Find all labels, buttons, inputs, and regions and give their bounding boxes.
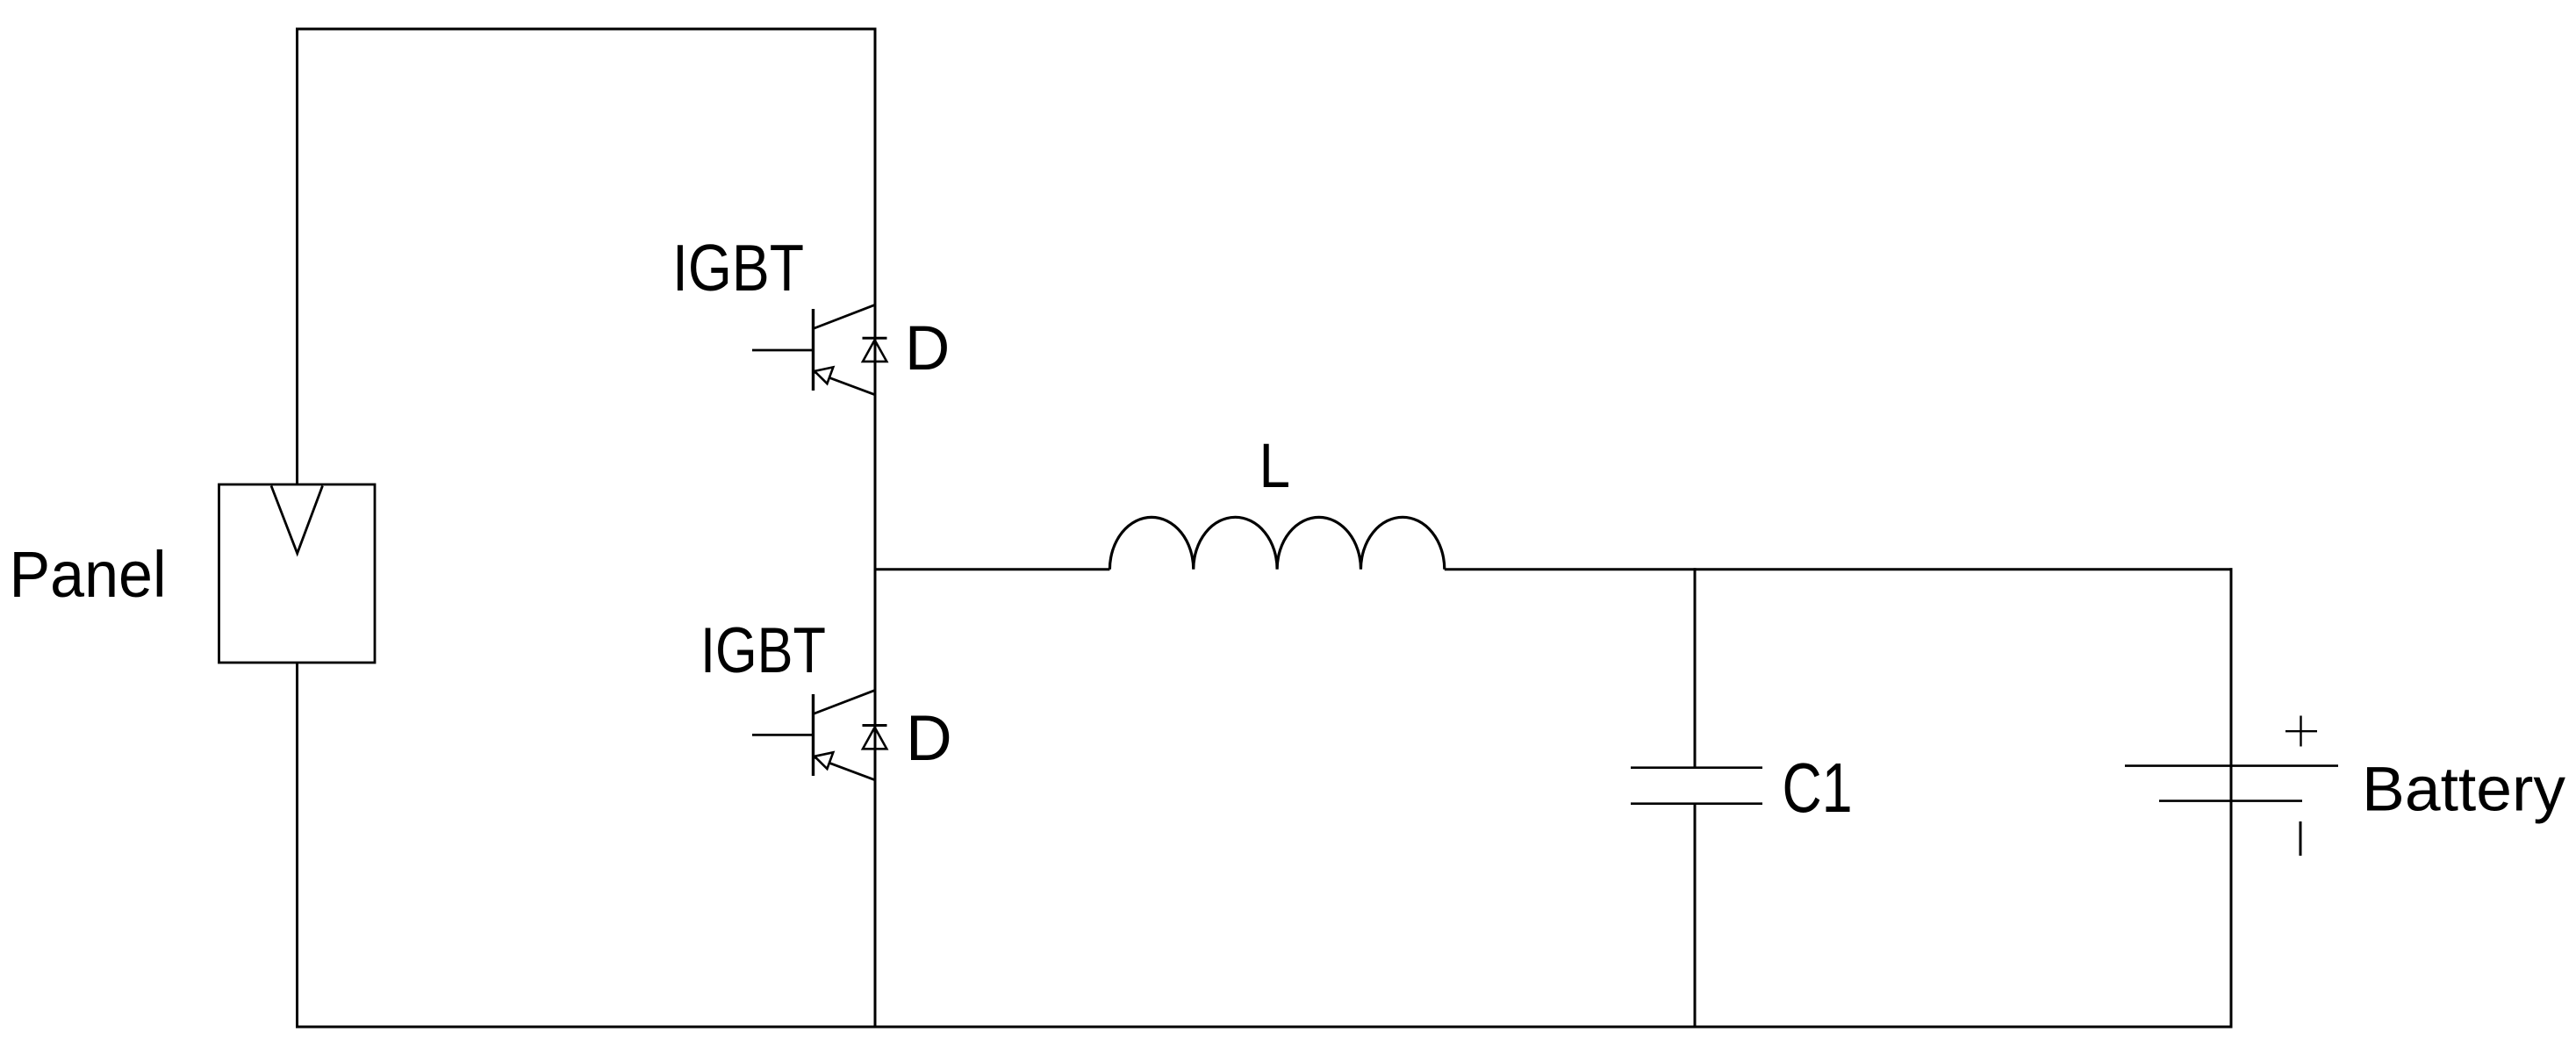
diode D lower: triangle <box>863 728 886 749</box>
transistor IGBT upper: emitter arrowhead (open) <box>814 367 833 384</box>
wire: bottom horizontal bus <box>296 1026 2233 1029</box>
transistor IGBT upper: gate lead <box>752 349 814 352</box>
battery minus mark (vertical dash) <box>2300 821 2302 856</box>
wire: output node horizontal, inductor to battery branch corner <box>1445 568 2233 570</box>
svg-text:Panel: Panel <box>10 538 167 611</box>
wire: main IGBT leg vertical (x=997) top to bottom <box>874 28 877 1028</box>
svg-text:IGBT: IGBT <box>700 615 826 686</box>
svg-text:L: L <box>1259 432 1291 501</box>
wire: capacitor C1 bottom lead <box>1694 804 1697 1027</box>
svg-text:D: D <box>906 703 952 774</box>
battery plus sign <box>2285 716 2317 747</box>
wire: capacitor C1 top lead <box>1694 568 1697 767</box>
wire: left vertical from top bus down to panel top <box>296 28 298 485</box>
transistor IGBT lower: collector diagonal <box>814 690 876 714</box>
wire: left vertical from panel bottom to bottom bus <box>296 663 298 1029</box>
wire: top horizontal bus from panel branch to IGBT leg <box>296 28 877 31</box>
diode D lower: cathode bar <box>863 724 887 727</box>
transistor IGBT lower: body bar <box>812 694 814 776</box>
transistor IGBT upper: body bar <box>812 309 814 391</box>
battery negative plate (short) <box>2159 800 2302 802</box>
inductor L winding arcs <box>1109 517 1444 570</box>
svg-text:Battery: Battery <box>2362 756 2566 825</box>
transistor IGBT lower: emitter arrowhead (open) <box>814 752 833 769</box>
diode D upper: triangle <box>863 340 886 362</box>
wire: output node horizontal, IGBT leg to inductor <box>875 568 1109 570</box>
solar panel PV1 body <box>219 484 376 663</box>
svg-text:IGBT: IGBT <box>672 231 804 305</box>
transistor IGBT upper: emitter diagonal <box>814 372 876 395</box>
transistor IGBT lower: gate lead <box>752 734 814 736</box>
transistor IGBT lower: emitter diagonal <box>814 757 876 779</box>
diode D upper: cathode bar <box>863 337 887 340</box>
svg-text:C1: C1 <box>1783 749 1853 827</box>
battery positive plate (long) <box>2125 764 2338 767</box>
transistor IGBT upper: collector diagonal <box>814 305 876 328</box>
capacitor C1 top plate <box>1631 766 1762 769</box>
capacitor C1 bottom plate <box>1631 802 1762 805</box>
wire: battery branch vertical (through plates) <box>2230 568 2233 1027</box>
svg-text:D: D <box>905 314 950 384</box>
solar panel V notch mark <box>271 486 323 554</box>
